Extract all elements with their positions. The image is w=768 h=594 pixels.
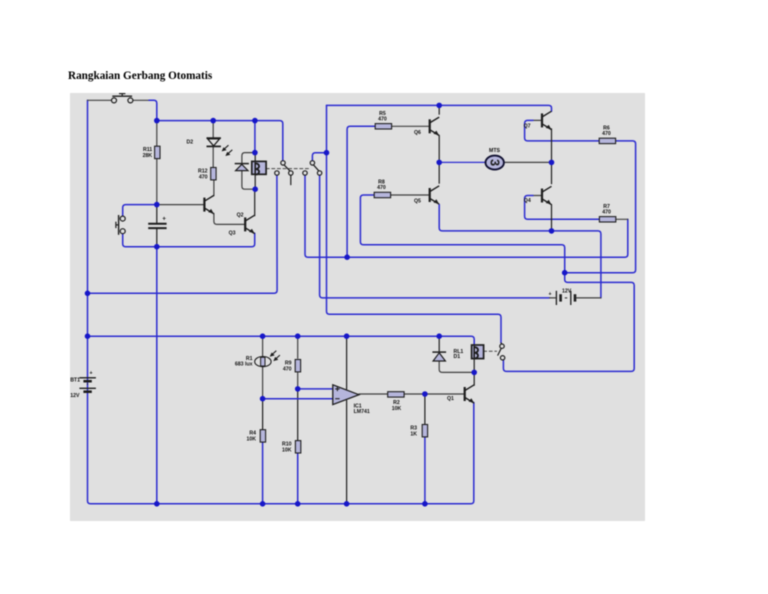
pushbutton PB2 — [116, 215, 125, 235]
wire battery left lead tail — [550, 297, 556, 299]
wire R9 bottom lead — [297, 373, 299, 389]
node rail left — [85, 333, 91, 339]
wire relay contact feed long vertical — [327, 105, 502, 343]
wire SW1 right lead to corner — [132, 99, 149, 101]
wire battery right lead — [577, 297, 601, 299]
wire op-amp output to Q1 base — [359, 393, 465, 395]
node A1 — [154, 118, 160, 124]
svg-text:Q6: Q6 — [414, 130, 421, 136]
wire Q4 collector riser — [551, 162, 553, 183]
wire op-amp V+ pin — [346, 336, 348, 389]
wire SW1 corner riser — [149, 100, 157, 120]
wire op-amp V- pin — [346, 401, 348, 504]
node Q1 base — [422, 391, 428, 397]
wire rail node A horizontal y=120.6 — [157, 121, 283, 161]
wire Q3 emitter return loop — [123, 233, 255, 247]
motor MTS — [486, 148, 504, 169]
node S2 feed — [324, 150, 330, 156]
battery 12V (motor supply) — [549, 289, 576, 305]
resistor R9 — [283, 360, 301, 373]
wire Q3 collector riser — [254, 189, 256, 215]
node node X — [562, 270, 568, 276]
wire mechanical link K1-contacts — [266, 168, 309, 170]
node K1 bottom — [252, 186, 258, 192]
resistor R7 — [599, 204, 615, 222]
wire flyback diode bottom lead — [242, 171, 255, 189]
switch S2 — [303, 161, 322, 176]
wire R11 leads — [156, 121, 158, 147]
svg-text:LM741: LM741 — [354, 409, 370, 415]
node Q2 base node — [154, 202, 160, 208]
op-amp IC1 LM741 — [333, 385, 370, 415]
wire relay K1 bottom pin — [254, 174, 256, 189]
wire flyback diode leads — [242, 153, 255, 164]
resistor R8 — [374, 180, 390, 198]
wire R7 right lead — [616, 218, 628, 220]
relay coil K1 — [252, 161, 266, 174]
svg-text:10K: 10K — [282, 447, 292, 453]
wire Q4 base stub — [533, 195, 542, 197]
wire Q2 emitter to Q3 base — [214, 214, 245, 225]
wire S1 NC stub — [290, 175, 292, 184]
wire cap bottom lead — [156, 229, 158, 247]
wire R4 leads — [262, 399, 264, 430]
relay coil RL1 — [454, 345, 484, 360]
wire D2-R12 lead — [212, 147, 214, 167]
LED D2 — [187, 138, 233, 156]
wire LDR top lead — [262, 336, 264, 356]
wire x=157 vertical to bottom rail — [156, 247, 158, 504]
node cross R5 — [344, 254, 350, 260]
svg-text:Q2: Q2 — [237, 213, 244, 219]
transistor Q7 — [524, 111, 552, 129]
svg-text:Q4: Q4 — [524, 198, 531, 204]
svg-text:28K: 28K — [143, 153, 153, 159]
wire R5 left lead / cross vertical — [347, 126, 375, 257]
svg-text:12V: 12V — [562, 289, 572, 295]
wire Q6 collector riser — [438, 105, 440, 114]
node rail b4 — [344, 501, 350, 507]
resistor R3 — [410, 425, 427, 438]
svg-text:683 lux: 683 lux — [235, 362, 253, 368]
wire motor left wire — [439, 161, 486, 163]
node rail b2 — [260, 501, 266, 507]
svg-text:Q5: Q5 — [414, 199, 421, 205]
wire R3 bottom lead — [424, 437, 426, 504]
node motor right — [549, 160, 555, 166]
wire R11 bottom lead — [156, 159, 158, 205]
node A3 — [252, 118, 258, 124]
resistor R10 — [282, 441, 301, 454]
svg-text:D2: D2 — [187, 139, 194, 145]
svg-text:Q7: Q7 — [524, 123, 531, 129]
battery BT1 12V — [70, 371, 96, 400]
wire D1 bottom lead — [439, 361, 474, 372]
wire R5 right lead to Q6 base — [392, 125, 430, 127]
LDR R1 — [235, 351, 280, 368]
transistor Q3 — [229, 215, 255, 236]
wire node X to RL1 contact — [503, 273, 634, 372]
svg-text:470: 470 — [602, 131, 611, 137]
node D1 rail — [436, 333, 442, 339]
wire Q7 base stub — [533, 119, 542, 121]
wire motor right wire — [504, 161, 551, 163]
node R9 rail — [295, 333, 301, 339]
wire R4 bottom lead — [262, 442, 264, 504]
svg-text:10K: 10K — [392, 406, 402, 412]
resistor R12 — [198, 168, 216, 181]
node A2 — [210, 118, 216, 124]
wire R3 leads — [424, 394, 426, 425]
wire LDR chain — [262, 357, 264, 399]
wire Q6 emitter drop — [438, 136, 440, 163]
wire R10 bottom lead — [297, 453, 299, 504]
svg-text:Rangkaian Gerbang Otomatis: Rangkaian Gerbang Otomatis — [68, 70, 213, 82]
wire S1 NO lead down-left to node — [88, 175, 278, 293]
node minus node — [260, 396, 266, 402]
wire RL1 switch feed — [500, 343, 503, 344]
transistor Q1 — [447, 385, 474, 403]
wire Q5 collector riser — [438, 162, 440, 183]
svg-text:D1: D1 — [454, 354, 461, 360]
wire R10 leads — [297, 389, 299, 441]
pushbutton SW1 — [112, 94, 133, 103]
svg-text:Q3: Q3 — [229, 230, 236, 236]
wire relay K1 top pin — [254, 153, 256, 162]
wire mechanical link RL1 — [484, 350, 497, 352]
resistor R5 — [375, 111, 391, 129]
node rail b5 — [422, 501, 428, 507]
svg-text:470: 470 — [283, 366, 292, 372]
node left S1 node — [85, 291, 91, 297]
wire S2 left contact cross line — [305, 175, 628, 257]
svg-text:BT1: BT1 — [70, 377, 80, 383]
wire relay K1 feed — [254, 121, 256, 153]
svg-text:470: 470 — [377, 185, 386, 191]
wire pushbutton SW1 leads — [88, 99, 112, 101]
svg-text:12V: 12V — [70, 393, 80, 399]
node K1 top — [252, 150, 258, 156]
resistor R2 — [388, 392, 404, 397]
node LDR rail — [260, 333, 266, 339]
wire Q7 base route — [525, 120, 599, 140]
wire R8 right lead to Q5 base — [391, 194, 430, 196]
svg-text:470: 470 — [199, 174, 208, 180]
transistor Q6 — [414, 117, 439, 136]
wire cap top lead — [156, 205, 158, 223]
svg-text:470: 470 — [378, 117, 387, 123]
node bridge top — [436, 103, 442, 109]
resistor R11 — [143, 146, 160, 159]
wire op-amp supply rail — [88, 336, 475, 345]
wire Q5 emitter drop / bridge bottom rail — [439, 205, 601, 298]
schematic panel — [70, 93, 645, 521]
svg-text:MTS: MTS — [489, 148, 500, 154]
node plus node — [295, 386, 301, 392]
svg-text:470: 470 — [602, 210, 611, 216]
node cap bottom node — [154, 244, 160, 250]
svg-text:+: + — [162, 216, 166, 223]
wire bridge top rail — [327, 105, 552, 111]
wire op-amp noninverting input — [298, 388, 333, 390]
wire R9 top lead — [297, 336, 299, 358]
node RL1 bottom — [471, 370, 477, 376]
diode D1 — [432, 352, 446, 361]
wire left supply vertical / bottom rail / Q1 emitter riser — [88, 100, 474, 504]
wire R8 left lead / riser — [360, 195, 564, 273]
node motor left — [436, 160, 442, 166]
wire S2 right contact to battery + — [320, 175, 550, 298]
svg-text:+: + — [549, 292, 552, 298]
node V+ rail — [344, 333, 350, 339]
wire op-amp inverting input — [263, 398, 333, 400]
flyback diode D3 — [235, 164, 249, 171]
capacitor C1 — [148, 216, 166, 229]
wire Q7 emitter drop — [551, 129, 553, 163]
node rail b3 — [295, 501, 301, 507]
wire Q4 emitter drop — [551, 205, 553, 231]
resistor R6 — [599, 125, 615, 143]
wire R12-Q2 collector lead — [213, 180, 215, 196]
wire R6 right lead — [565, 141, 636, 273]
wire Q4 base route — [525, 196, 600, 220]
wire PB2 top lead — [123, 205, 157, 217]
svg-text:+: + — [90, 371, 93, 377]
wire D2 top lead — [212, 121, 214, 138]
wire RL1 bottom pin to Q1 collector — [473, 359, 475, 386]
node rail b1 — [154, 501, 160, 507]
wire D1 top lead — [438, 336, 440, 352]
svg-text:10K: 10K — [246, 437, 256, 443]
svg-text:1K: 1K — [410, 431, 417, 437]
node bridge bottom — [549, 228, 555, 234]
svg-text:3: 3 — [487, 159, 501, 166]
resistor R4 — [246, 430, 265, 443]
transistor Q4 — [524, 186, 552, 204]
transistor Q5 — [414, 186, 439, 205]
switch S3 (RL1 contact) — [498, 344, 505, 360]
wire S2 feed — [312, 153, 326, 161]
switch S1 — [275, 161, 293, 176]
wire Q2 base wire — [157, 204, 205, 206]
transistor Q2 — [204, 195, 243, 218]
svg-text:Q1: Q1 — [447, 396, 454, 402]
